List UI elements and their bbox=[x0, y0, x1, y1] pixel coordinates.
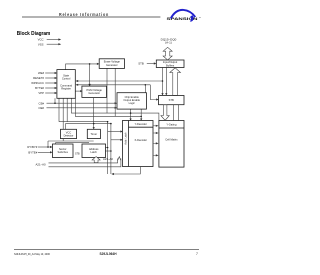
svg-text:S29JL064H: S29JL064H bbox=[99, 252, 117, 256]
svg-text:WP#/ACC: WP#/ACC bbox=[31, 81, 44, 85]
svg-text:S29JL064H_00_A4 May 10, 2006: S29JL064H_00_A4 May 10, 2006 bbox=[14, 253, 51, 256]
svg-text:STB: STB bbox=[138, 62, 144, 66]
svg-text:STB: STB bbox=[75, 153, 80, 156]
svg-text:Logic: Logic bbox=[129, 101, 136, 105]
svg-text:Y-Gating: Y-Gating bbox=[166, 123, 177, 127]
svg-text:Addr. Latch: Addr. Latch bbox=[125, 132, 128, 145]
svg-text:OE#: OE# bbox=[38, 106, 44, 110]
svg-text:Generator: Generator bbox=[88, 91, 100, 95]
svg-text:VPP: VPP bbox=[38, 91, 44, 95]
svg-text:(A-1): (A-1) bbox=[165, 40, 172, 44]
svg-text:Release Information: Release Information bbox=[59, 12, 109, 17]
svg-text:7: 7 bbox=[196, 252, 198, 256]
svg-text:Y-Decoder: Y-Decoder bbox=[135, 122, 147, 126]
svg-text:VSS: VSS bbox=[38, 42, 44, 46]
svg-text:Generator: Generator bbox=[106, 63, 118, 67]
svg-text:Cell Matrix: Cell Matrix bbox=[165, 138, 178, 142]
svg-text:Detector: Detector bbox=[64, 133, 74, 137]
svg-text:BYTE#: BYTE# bbox=[28, 150, 37, 154]
svg-text:BYTE#: BYTE# bbox=[35, 86, 44, 90]
svg-text:Timer: Timer bbox=[91, 132, 98, 136]
svg-text:RESET#: RESET# bbox=[33, 76, 44, 80]
svg-text:WE#: WE# bbox=[38, 71, 45, 75]
svg-text:A21–A0: A21–A0 bbox=[103, 157, 113, 161]
svg-text:Switches: Switches bbox=[58, 150, 69, 154]
svg-text:STB: STB bbox=[169, 98, 174, 102]
svg-text:VCC: VCC bbox=[38, 38, 44, 42]
svg-text:Control: Control bbox=[62, 77, 71, 81]
svg-text:A21–A0: A21–A0 bbox=[36, 163, 46, 167]
svg-text:Buffers: Buffers bbox=[166, 63, 175, 67]
svg-text:Block Diagram: Block Diagram bbox=[17, 31, 51, 37]
svg-text:Register: Register bbox=[61, 87, 71, 91]
svg-text:X-Decoder: X-Decoder bbox=[134, 138, 147, 142]
svg-text:Latch: Latch bbox=[91, 150, 98, 154]
svg-text:™: ™ bbox=[199, 17, 201, 20]
svg-text:RY/BY#: RY/BY# bbox=[27, 145, 37, 149]
svg-text:CE#: CE# bbox=[39, 101, 45, 105]
